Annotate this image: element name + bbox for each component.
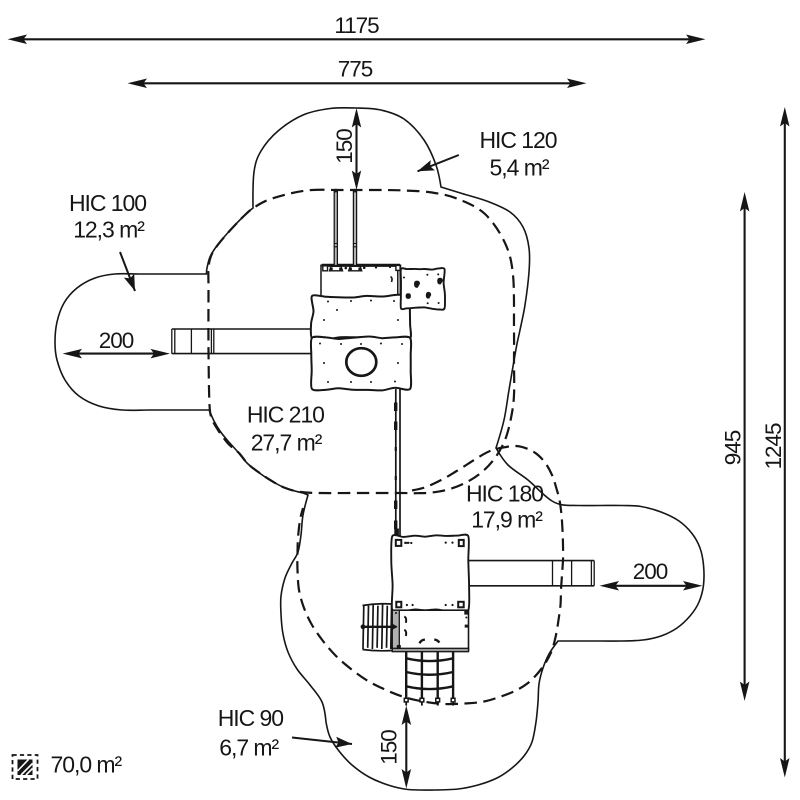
left slide beam bbox=[172, 329, 313, 354]
climbing rock lower slab with tunnel bbox=[311, 336, 411, 390]
dimension 1175 top bbox=[8, 13, 706, 44]
svg-text:HIC 120: HIC 120 bbox=[479, 127, 556, 153]
dimension 945 right bbox=[721, 192, 750, 701]
arrow HIC 90 bbox=[292, 738, 352, 745]
arrow HIC 100 bbox=[120, 252, 135, 291]
firemans pole left bbox=[330, 189, 343, 271]
climbing rock upper slab bbox=[311, 295, 411, 340]
svg-text:27,7 m²: 27,7 m² bbox=[251, 430, 323, 456]
svg-text:6,7 m²: 6,7 m² bbox=[219, 735, 279, 761]
svg-text:HIC 180: HIC 180 bbox=[466, 481, 543, 507]
dimension 150 bottom bbox=[377, 706, 412, 789]
svg-text:70,0 m²: 70,0 m² bbox=[51, 752, 123, 778]
firemans pole right bbox=[349, 189, 362, 271]
bridge rail bbox=[396, 389, 400, 537]
dimension 200 left bbox=[63, 328, 171, 358]
climbing wall panel bbox=[401, 268, 445, 310]
svg-text:150: 150 bbox=[377, 730, 402, 765]
dimension 150 top bbox=[332, 108, 361, 190]
svg-text:HIC 90: HIC 90 bbox=[218, 705, 284, 731]
dimension 1245 right bbox=[761, 107, 790, 778]
access ramp with slats bbox=[361, 604, 398, 651]
svg-text:1175: 1175 bbox=[334, 13, 379, 38]
safety zone outline (solid union boundary) bbox=[55, 108, 704, 790]
svg-text:150: 150 bbox=[332, 129, 357, 164]
dimension 200 right bbox=[600, 559, 703, 591]
arrow HIC 120 bbox=[418, 155, 459, 171]
svg-text:17,9 m²: 17,9 m² bbox=[471, 507, 543, 533]
dashed equipment zone lower bbox=[297, 446, 563, 704]
legend hatched square bbox=[13, 755, 38, 779]
climbing net bbox=[404, 652, 455, 706]
svg-text:12,3 m²: 12,3 m² bbox=[73, 217, 145, 243]
bridge foot mark bbox=[394, 529, 399, 537]
svg-text:5,4 m²: 5,4 m² bbox=[490, 155, 550, 181]
dimension 775 bbox=[128, 57, 587, 89]
svg-text:200: 200 bbox=[633, 559, 668, 584]
svg-text:200: 200 bbox=[99, 328, 134, 353]
lower second platform bbox=[392, 610, 468, 652]
lower main platform bbox=[391, 535, 469, 612]
right slide beam bbox=[468, 561, 594, 586]
upper platform deck bbox=[321, 264, 401, 297]
svg-text:775: 775 bbox=[338, 57, 373, 82]
svg-text:1245: 1245 bbox=[761, 423, 786, 469]
svg-text:945: 945 bbox=[721, 430, 746, 465]
svg-text:HIC 210: HIC 210 bbox=[247, 402, 324, 428]
svg-text:HIC 100: HIC 100 bbox=[69, 190, 146, 216]
dashed equipment zone upper bbox=[208, 190, 514, 493]
